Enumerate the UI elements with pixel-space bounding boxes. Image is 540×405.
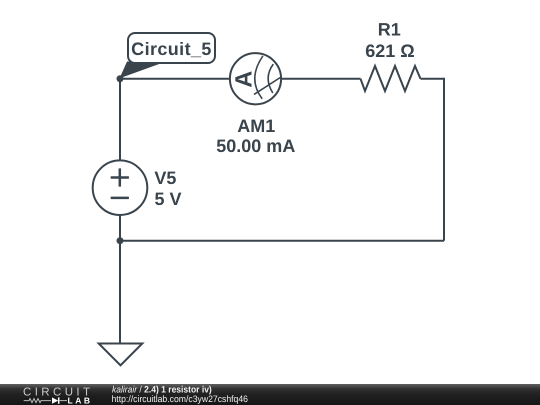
svg-text:50.00 mA: 50.00 mA: [216, 136, 295, 156]
node label Circuit_5 balloon: [120, 33, 215, 78]
node A junction dot: [117, 75, 124, 82]
wire: bottom horizontal: [120, 240, 444, 242]
svg-text:LAB: LAB: [68, 395, 93, 405]
svg-text:R1: R1: [378, 19, 401, 39]
footer credit line: [112, 384, 212, 394]
wire: ammeter to resistor R1: [281, 78, 361, 80]
wire: resistor R1 to top-right corner: [421, 78, 445, 80]
wire top: node A to ammeter: [120, 78, 230, 80]
wire: junction down to ground: [119, 241, 121, 344]
svg-text:Circuit_5: Circuit_5: [131, 39, 212, 59]
svg-text:http://circuitlab.com/c3yw27cs: http://circuitlab.com/c3yw27cshfq46: [112, 394, 248, 404]
svg-text:kalirair / 2.4) 1 resistor iv): kalirair / 2.4) 1 resistor iv): [112, 384, 212, 394]
junction dot bottom: [117, 237, 124, 244]
svg-text:AM1: AM1: [237, 116, 275, 136]
resistor R1: [361, 66, 421, 91]
ammeter AM1: [230, 53, 281, 104]
svg-text:A: A: [231, 71, 257, 88]
footer bar: [0, 384, 540, 405]
wire: V5 bottom to junction: [119, 215, 121, 241]
footer url: [112, 394, 248, 404]
wire: right vertical: [443, 78, 445, 241]
CircuitLab logo: [23, 386, 93, 405]
svg-text:621 Ω: 621 Ω: [365, 41, 414, 61]
svg-text:5 V: 5 V: [155, 189, 182, 209]
wire: node A down to V5 top: [119, 79, 121, 161]
voltage source V5: [93, 160, 148, 215]
svg-text:V5: V5: [154, 168, 176, 188]
ground: [99, 344, 143, 366]
